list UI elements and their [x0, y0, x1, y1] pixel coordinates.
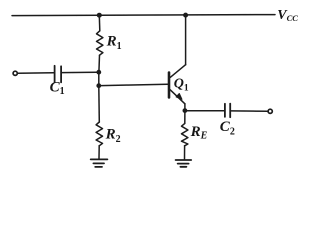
wire C2 to output [231, 110, 268, 112]
transistor Q1 [169, 65, 186, 104]
wire emitter to node C [184, 104, 186, 111]
node junction rail-collector [183, 13, 188, 18]
svg-text:Q1: Q1 [174, 76, 189, 93]
svg-text:R2: R2 [105, 127, 121, 146]
node junction rail-R1 [97, 13, 102, 18]
ground left [91, 159, 108, 167]
node C (emitter junction) [183, 108, 188, 113]
resistor R1 [97, 31, 103, 55]
wire R2 to ground [98, 146, 100, 159]
wire node C to RE [184, 111, 186, 124]
resistor RE [182, 123, 188, 145]
node B (base junction) [96, 83, 101, 88]
wire C1 to node A [62, 71, 96, 73]
svg-text:VCC: VCC [277, 8, 298, 23]
svg-text:RE: RE [190, 124, 208, 141]
wire R1 to node A [98, 55, 101, 72]
wire node A to node B [98, 72, 100, 86]
svg-text:C1: C1 [50, 80, 65, 98]
wire rail to R1 [98, 15, 101, 31]
wire base [101, 84, 167, 85]
svg-text:C2: C2 [220, 119, 235, 138]
wire Vcc rail [12, 15, 275, 16]
ground right [176, 160, 192, 167]
input terminal [13, 71, 17, 75]
wire node B to R2 [98, 86, 101, 122]
wire input to C1 [18, 72, 54, 74]
output terminal [268, 109, 272, 113]
capacitor C1 [55, 66, 62, 83]
capacitor C2 [225, 104, 230, 118]
svg-text:R1: R1 [106, 34, 122, 52]
wire node C to C2 [185, 110, 224, 112]
node A (C1 junction) [96, 70, 101, 75]
wire collector [185, 15, 187, 65]
wire RE to ground [184, 146, 186, 160]
resistor R2 [96, 122, 102, 146]
